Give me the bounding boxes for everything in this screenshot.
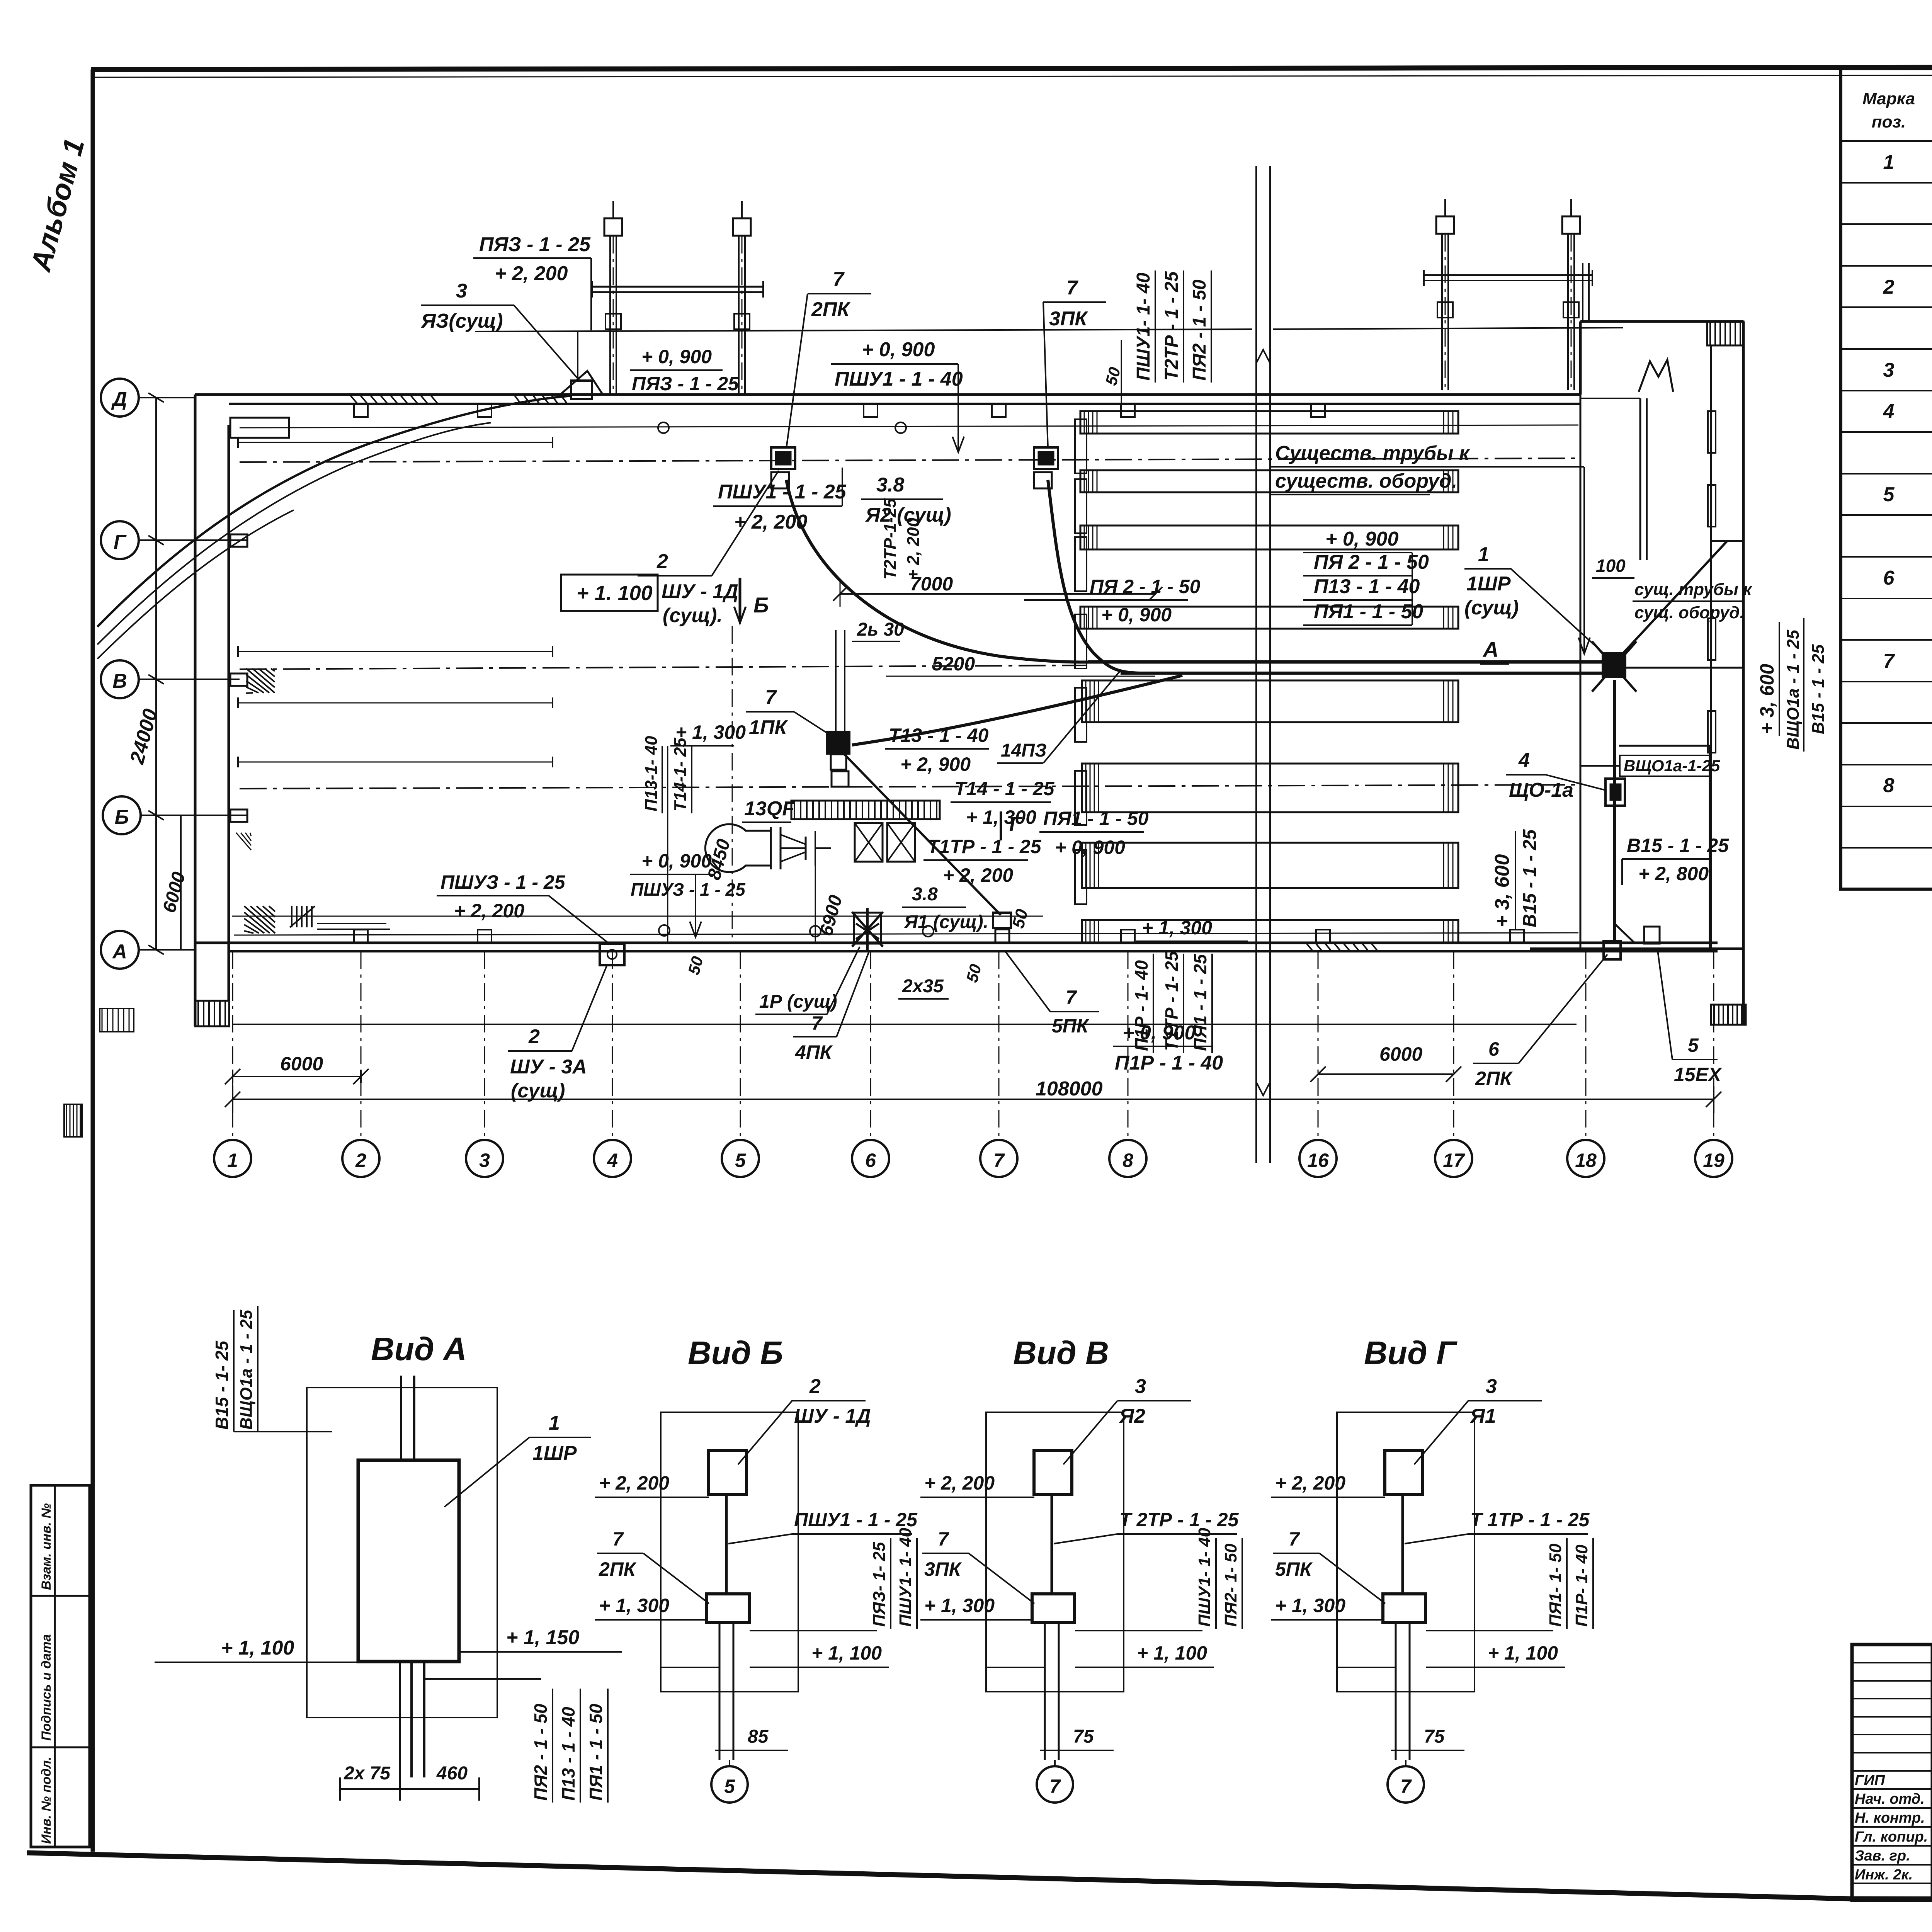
- portal leg footing: [1444, 199, 1446, 216]
- svg-text:7: 7: [833, 268, 845, 291]
- view Г outer rect: [1337, 1412, 1475, 1692]
- svg-text:5ПК: 5ПК: [1052, 1015, 1090, 1037]
- top wall hatched segment 1: [350, 395, 357, 404]
- fold mark left border: [64, 1104, 82, 1137]
- axis circle В: [101, 660, 139, 698]
- arrow down near ПШУЗ: [695, 874, 696, 935]
- svg-text:Существ. трубы к: Существ. трубы к: [1275, 442, 1470, 464]
- vertical dim line 8450: [732, 626, 733, 943]
- X-box 1: [855, 823, 883, 862]
- view A outer rect: [307, 1388, 497, 1718]
- storage racks lower group: [1082, 680, 1458, 722]
- portal hanger squares: [1437, 302, 1453, 318]
- svg-text:(сущ).: (сущ).: [663, 604, 723, 627]
- portal crossbar: [592, 286, 763, 288]
- svg-text:6000: 6000: [280, 1053, 323, 1075]
- building right wall: [1742, 321, 1745, 1024]
- annex bottom-right hatch block: [1711, 1005, 1746, 1025]
- view Б top box: [709, 1451, 747, 1495]
- bottom node below ЩО: [1604, 941, 1621, 959]
- view В bottom pipes: [1044, 1622, 1046, 1760]
- building top wall: [195, 393, 1580, 396]
- svg-text:(сущ): (сущ): [1464, 597, 1519, 619]
- svg-text:+ 1. 100: + 1. 100: [577, 582, 653, 605]
- svg-text:Вид Б: Вид Б: [688, 1335, 783, 1371]
- axis circle Б: [103, 796, 141, 834]
- section mark Г: [1000, 811, 1002, 840]
- svg-text:7000: 7000: [910, 573, 953, 595]
- left margin stamp box: [31, 1485, 90, 1847]
- lamp 13QF symbol: [705, 824, 771, 872]
- wall footing line top: [240, 425, 1578, 428]
- svg-text:ПЯ 2 - 1 - 50: ПЯ 2 - 1 - 50: [1090, 576, 1201, 597]
- crane rail dash-dot 3: [240, 785, 1578, 789]
- trolley drop 2x30: [835, 630, 837, 734]
- axis leader Д: [139, 397, 195, 398]
- svg-text:П13-1- 40: П13-1- 40: [642, 736, 661, 811]
- view Б lower box: [707, 1594, 749, 1622]
- svg-text:Г: Г: [1009, 813, 1022, 835]
- building bottom-left hatch block: [195, 1001, 229, 1026]
- annex bottom wall: [1530, 947, 1743, 950]
- annex door zigzag: [1639, 360, 1673, 392]
- svg-text:5: 5: [724, 1776, 735, 1797]
- view Г top box: [1385, 1451, 1423, 1495]
- elevation box +1.100: [561, 575, 658, 611]
- svg-text:ПШУ1- 1- 40: ПШУ1- 1- 40: [896, 1527, 915, 1627]
- svg-text:7: 7: [1066, 986, 1077, 1008]
- conduit curve from 2ПК: [786, 480, 1121, 662]
- svg-text:В: В: [112, 670, 127, 692]
- svg-text:Т1ТР - 1 - 25: Т1ТР - 1 - 25: [927, 836, 1042, 857]
- svg-text:П1Р - 1 - 40: П1Р - 1 - 40: [1115, 1052, 1223, 1074]
- svg-text:ВЩО1а-1-25: ВЩО1а-1-25: [1624, 757, 1720, 775]
- svg-text:поз.: поз.: [1872, 112, 1906, 131]
- svg-text:4: 4: [1518, 749, 1530, 772]
- svg-text:Н. контр.: Н. контр.: [1855, 1810, 1925, 1826]
- svg-text:4: 4: [1883, 400, 1895, 423]
- cross hatch block B: [246, 668, 275, 693]
- svg-text:16: 16: [1307, 1150, 1329, 1171]
- box ЩО-1а node: [1605, 779, 1625, 806]
- svg-text:6000: 6000: [1379, 1043, 1422, 1065]
- axis circle А: [101, 931, 139, 969]
- svg-text:ГИП: ГИП: [1855, 1772, 1885, 1789]
- 4ПК cluster at bottom wall: [854, 913, 881, 944]
- node diagonal to supply: [1613, 541, 1727, 664]
- svg-text:2ПК: 2ПК: [599, 1558, 637, 1580]
- svg-text:+ 2, 200: + 2, 200: [495, 262, 568, 285]
- interior light row lines: [238, 442, 553, 443]
- svg-text:1ШР: 1ШР: [1466, 573, 1511, 595]
- svg-text:+ 0, 900: + 0, 900: [1055, 837, 1125, 858]
- svg-text:Т13 - 1 - 40: Т13 - 1 - 40: [889, 724, 989, 746]
- svg-text:+ 3, 600: + 3, 600: [1491, 854, 1514, 927]
- storage racks upper group: [1080, 411, 1458, 434]
- svg-text:2ь 30: 2ь 30: [857, 619, 904, 640]
- svg-text:2: 2: [809, 1375, 821, 1398]
- svg-text:Инв. № подл.: Инв. № подл.: [39, 1757, 54, 1844]
- svg-text:ПЯ2 - 1 - 50: ПЯ2 - 1 - 50: [1189, 279, 1210, 381]
- svg-text:Я1 (сущ).: Я1 (сущ).: [903, 912, 988, 932]
- view Б column bubble: [711, 1766, 748, 1803]
- svg-text:14ПЗ: 14ПЗ: [1001, 740, 1047, 761]
- svg-text:ПЯЗ- 1- 25: ПЯЗ- 1- 25: [870, 1542, 889, 1627]
- stair symbol bottom-left: [291, 906, 293, 927]
- svg-text:Г: Г: [114, 531, 127, 553]
- conduit drop column 18: [1582, 263, 1583, 321]
- svg-text:ПЯ1 - 1 - 50: ПЯ1 - 1 - 50: [586, 1704, 606, 1801]
- view В outer rect: [986, 1412, 1124, 1692]
- annex inner partition walls: [1580, 395, 1582, 949]
- svg-text:Взам. инв. №: Взам. инв. №: [39, 1503, 54, 1590]
- view A cabinet 1ШР: [358, 1460, 459, 1662]
- axis leader Г: [139, 539, 247, 541]
- svg-text:ПЯЗ - 1 - 25: ПЯЗ - 1 - 25: [632, 373, 739, 395]
- portal legs: [609, 236, 611, 394]
- svg-text:13QF: 13QF: [744, 798, 795, 820]
- svg-text:5: 5: [1688, 1034, 1699, 1056]
- main conduit run to node: [1088, 660, 1603, 664]
- svg-text:Нач. отд.: Нач. отд.: [1855, 1791, 1925, 1807]
- svg-text:ПШУЗ - 1 - 25: ПШУЗ - 1 - 25: [631, 879, 746, 900]
- svg-text:А: А: [1482, 637, 1498, 662]
- svg-text:Т14 - 1 - 25: Т14 - 1 - 25: [954, 778, 1055, 799]
- svg-text:П13 - 1 - 40: П13 - 1 - 40: [558, 1707, 578, 1801]
- hatched busbar: [791, 801, 940, 819]
- svg-text:7: 7: [1883, 650, 1895, 672]
- svg-text:+ 2, 200: + 2, 200: [1275, 1472, 1345, 1494]
- svg-text:2х35: 2х35: [902, 976, 944, 997]
- view A bottom pipes: [399, 1662, 401, 1777]
- svg-text:108000: 108000: [1036, 1078, 1103, 1100]
- svg-text:+ 3, 600: + 3, 600: [1756, 664, 1778, 734]
- svg-text:ПШУ1 - 1 - 25: ПШУ1 - 1 - 25: [794, 1509, 918, 1531]
- svg-text:8: 8: [1883, 774, 1895, 797]
- svg-text:ШУ - 1Д: ШУ - 1Д: [794, 1405, 871, 1427]
- svg-text:2ПК: 2ПК: [1475, 1068, 1513, 1089]
- svg-text:Т14-1- 25: Т14-1- 25: [671, 738, 690, 811]
- svg-text:2ПК: 2ПК: [811, 298, 850, 321]
- view Г lower box: [1383, 1594, 1425, 1622]
- portal legs: [1441, 234, 1443, 390]
- junction box node 1ШР: [1603, 653, 1625, 677]
- svg-text:3.8: 3.8: [876, 474, 904, 496]
- svg-text:+ 0, 900: + 0, 900: [641, 850, 712, 872]
- curve rail spur second: [97, 423, 491, 645]
- svg-text:Вид В: Вид В: [1013, 1335, 1109, 1371]
- right annex step wall: [1579, 321, 1582, 395]
- view Г riser: [1401, 1495, 1404, 1595]
- svg-text:ШУ - 1Д: ШУ - 1Д: [662, 580, 738, 603]
- svg-text:Т1ТР - 1- 25: Т1ТР - 1- 25: [1162, 951, 1182, 1051]
- svg-text:+ 0, 900: + 0, 900: [1101, 604, 1172, 626]
- view Б bottom pipes: [719, 1622, 721, 1760]
- building left wall: [194, 395, 197, 1026]
- svg-text:+ 2, 200: + 2, 200: [599, 1472, 669, 1494]
- svg-text:7: 7: [811, 1012, 823, 1034]
- node to right wall: [1625, 667, 1743, 669]
- svg-text:7: 7: [938, 1528, 949, 1550]
- svg-text:2: 2: [528, 1026, 540, 1048]
- svg-text:2: 2: [656, 550, 668, 573]
- svg-text:1: 1: [1883, 151, 1895, 173]
- svg-text:+ 1, 300: + 1, 300: [599, 1595, 669, 1616]
- foundation line: [232, 1024, 1577, 1025]
- svg-text:1: 1: [549, 1412, 560, 1434]
- portal crossbar: [1424, 274, 1592, 276]
- svg-text:+ 1, 150: + 1, 150: [506, 1626, 579, 1649]
- svg-text:7: 7: [1289, 1528, 1300, 1550]
- svg-text:Марка: Марка: [1862, 89, 1915, 108]
- svg-text:+ 1, 100: + 1, 100: [221, 1637, 294, 1659]
- axis leader Б: [141, 815, 247, 816]
- curve from border to building (rail spur upper): [97, 396, 572, 627]
- svg-text:19: 19: [1703, 1150, 1725, 1171]
- svg-text:+ 1, 100: + 1, 100: [1137, 1642, 1207, 1664]
- svg-text:+ 0, 900: + 0, 900: [1325, 528, 1398, 550]
- column bubbles: [214, 1140, 251, 1177]
- specification table: [1841, 69, 1932, 889]
- title block signature columns: [1931, 1645, 1932, 1900]
- node conduit vertical: [1613, 680, 1616, 943]
- svg-text:сущ. трубы к: сущ. трубы к: [1634, 580, 1753, 599]
- crane rail dash-dot 2: [240, 665, 1086, 669]
- svg-text:3ПК: 3ПК: [924, 1558, 962, 1580]
- svg-text:7: 7: [765, 686, 777, 709]
- svg-text:П1Р - 1- 40: П1Р - 1- 40: [1131, 960, 1151, 1051]
- curve rail spur lower: [97, 510, 294, 659]
- svg-text:+ 2, 800: + 2, 800: [1638, 863, 1709, 884]
- cross hatch block Б small: [236, 833, 251, 850]
- svg-text:ПШУЗ - 1 - 25: ПШУЗ - 1 - 25: [440, 871, 566, 893]
- svg-text:(сущ): (сущ): [511, 1080, 565, 1102]
- axis circle Г: [101, 521, 139, 559]
- svg-text:75: 75: [1073, 1726, 1094, 1747]
- view В riser: [1051, 1495, 1053, 1595]
- axis leader А: [139, 949, 195, 951]
- view В top box: [1034, 1451, 1072, 1495]
- column ticks bottom wall: [354, 930, 368, 943]
- svg-text:1ШР: 1ШР: [532, 1442, 577, 1464]
- svg-text:+ 2, 200: + 2, 200: [924, 1472, 995, 1494]
- 3ПК pull box cluster: [1034, 447, 1058, 469]
- bottom wall hatched segment: [1306, 943, 1313, 951]
- svg-text:Вид А: Вид А: [371, 1331, 467, 1367]
- svg-text:+ 1, 300: + 1, 300: [1142, 917, 1212, 939]
- svg-text:85: 85: [748, 1726, 769, 1747]
- svg-text:1Р (сущ): 1Р (сущ): [759, 992, 837, 1012]
- office room top-left: [230, 418, 289, 438]
- svg-text:Инж. 2к.: Инж. 2к.: [1855, 1867, 1913, 1883]
- svg-text:7: 7: [1400, 1776, 1412, 1797]
- svg-text:ШУ - 3А: ШУ - 3А: [510, 1056, 587, 1078]
- svg-text:3ПК: 3ПК: [1049, 308, 1088, 330]
- svg-text:Гл. копир.: Гл. копир.: [1855, 1829, 1928, 1845]
- conduit curve from 3ПК: [1048, 480, 1140, 673]
- svg-text:1: 1: [227, 1150, 238, 1171]
- wall mount circles: [658, 422, 669, 433]
- portal leg footing: [612, 201, 614, 218]
- svg-text:ПШУ1 - 1 - 25: ПШУ1 - 1 - 25: [718, 481, 847, 503]
- svg-text:+ 2, 200: + 2, 200: [943, 864, 1013, 886]
- svg-text:15ЕХ: 15ЕХ: [1674, 1064, 1722, 1085]
- section mark Б: [739, 578, 742, 622]
- svg-text:6: 6: [865, 1150, 876, 1171]
- wall footing line bottom: [234, 933, 1578, 935]
- svg-text:Я1: Я1: [1469, 1405, 1496, 1427]
- title block outer: [1852, 1645, 1932, 1900]
- sheet border frame: [91, 70, 95, 1852]
- svg-text:1ПК: 1ПК: [749, 716, 788, 739]
- svg-text:+ 0, 900: + 0, 900: [862, 338, 935, 361]
- svg-text:3: 3: [479, 1150, 490, 1171]
- svg-text:5ПК: 5ПК: [1275, 1558, 1313, 1580]
- left dimension line 6000: [180, 815, 182, 950]
- svg-text:ПЯЗ - 1 - 25: ПЯЗ - 1 - 25: [479, 233, 591, 256]
- svg-text:Зав. гр.: Зав. гр.: [1855, 1848, 1910, 1864]
- svg-text:75: 75: [1424, 1726, 1445, 1747]
- svg-text:+ 2, 200: + 2, 200: [454, 900, 524, 922]
- svg-text:+ 0, 900: + 0, 900: [641, 346, 712, 367]
- view A bottom dims: [340, 1788, 479, 1790]
- svg-text:3.8: 3.8: [912, 884, 938, 905]
- svg-text:2: 2: [355, 1150, 366, 1171]
- 1ПК pull box cluster: [827, 732, 849, 753]
- node small box right: [1644, 927, 1660, 944]
- ramp hatch left: [100, 1009, 134, 1032]
- vertical dim 6900: [815, 866, 816, 943]
- dim line 108000: [233, 1099, 1714, 1100]
- svg-text:существ. оборуд.: существ. оборуд.: [1275, 470, 1457, 492]
- svg-text:В15 - 1- 25: В15 - 1- 25: [212, 1340, 232, 1430]
- svg-text:100: 100: [1596, 556, 1626, 576]
- dim line 6000 right: [1318, 1073, 1454, 1075]
- view Б outer rect: [661, 1412, 798, 1692]
- title block signature rows: [1852, 1662, 1932, 1663]
- svg-text:Т2ТР - 1 - 25: Т2ТР - 1 - 25: [1162, 271, 1182, 381]
- view A top pipes: [400, 1376, 402, 1460]
- view Г column bubble: [1388, 1766, 1424, 1803]
- svg-text:П1Р- 1- 40: П1Р- 1- 40: [1572, 1544, 1591, 1627]
- svg-text:ПШУ1 - 1 - 40: ПШУ1 - 1 - 40: [835, 368, 963, 390]
- rack aisle line: [232, 916, 1043, 917]
- svg-text:Т 1ТР - 1 - 25: Т 1ТР - 1 - 25: [1470, 1509, 1590, 1531]
- svg-text:ВЩО1а - 1 - 25: ВЩО1а - 1 - 25: [1784, 629, 1803, 750]
- svg-text:Т 2ТР - 1 - 25: Т 2ТР - 1 - 25: [1119, 1509, 1239, 1531]
- svg-text:ВЩО1а - 1 - 25: ВЩО1а - 1 - 25: [237, 1310, 256, 1430]
- box ЯЗ on top wall: [571, 381, 592, 399]
- overhead conduit line: [475, 329, 1252, 332]
- svg-text:В15 - 1 - 25: В15 - 1 - 25: [1520, 829, 1540, 927]
- svg-text:5: 5: [735, 1150, 746, 1171]
- svg-text:5200: 5200: [932, 653, 975, 675]
- svg-text:Я2: Я2: [1119, 1405, 1145, 1427]
- top wall door notch: [560, 371, 603, 395]
- svg-text:17: 17: [1443, 1150, 1465, 1171]
- svg-text:Подпись и дата: Подпись и дата: [39, 1634, 54, 1741]
- view Г bottom pipes: [1395, 1622, 1397, 1760]
- svg-text:+ 2, 900: + 2, 900: [900, 753, 971, 775]
- svg-text:Т2ТР-1-25: Т2ТР-1-25: [881, 498, 900, 580]
- view Б riser: [725, 1495, 728, 1595]
- svg-text:В15 - 1 - 25: В15 - 1 - 25: [1627, 835, 1729, 856]
- svg-text:ПЯ2- 1- 50: ПЯ2- 1- 50: [1221, 1543, 1240, 1627]
- svg-text:ПЯ1- 1- 50: ПЯ1- 1- 50: [1546, 1543, 1565, 1627]
- svg-text:ПШУ1- 1- 40: ПШУ1- 1- 40: [1195, 1527, 1214, 1627]
- svg-text:сущ. оборуд.: сущ. оборуд.: [1634, 603, 1745, 622]
- svg-text:2х 75: 2х 75: [344, 1763, 391, 1784]
- svg-text:18: 18: [1575, 1150, 1597, 1171]
- svg-text:460: 460: [436, 1763, 468, 1784]
- svg-text:6: 6: [1883, 567, 1895, 589]
- rack end posts hatched: [1075, 419, 1087, 473]
- conduit curve from 1ПК: [852, 675, 1182, 745]
- conduit diagonal 1ПК to bottom wall: [844, 754, 1001, 915]
- svg-text:7: 7: [612, 1528, 624, 1550]
- svg-text:+ 1, 300: + 1, 300: [924, 1595, 995, 1616]
- annex top-right hatch block: [1707, 321, 1743, 345]
- dim line 6000 left: [233, 1076, 361, 1077]
- crane rail dash-dot 1: [240, 458, 1578, 462]
- top wall hatched segment 2: [514, 395, 521, 404]
- svg-text:1: 1: [1478, 543, 1489, 566]
- view В column bubble: [1037, 1766, 1073, 1803]
- svg-text:ПЯ1 - 1 - 50: ПЯ1 - 1 - 50: [1314, 600, 1423, 623]
- svg-text:3: 3: [1486, 1375, 1497, 1398]
- svg-text:ПШУ1- 1- 40: ПШУ1- 1- 40: [1133, 272, 1154, 381]
- svg-text:7: 7: [993, 1150, 1005, 1171]
- svg-text:Вид Г: Вид Г: [1364, 1335, 1458, 1371]
- view В lower box: [1032, 1594, 1075, 1622]
- building bottom wall axis А: [195, 942, 1718, 944]
- svg-text:2: 2: [1883, 276, 1895, 298]
- svg-text:+ 2, 200: + 2, 200: [904, 517, 923, 580]
- svg-text:5: 5: [1883, 483, 1895, 506]
- label ВЩО1а-1-25 box: [1620, 755, 1709, 776]
- svg-text:Д: Д: [111, 388, 127, 410]
- conduit drop to ЯЗ box: [577, 332, 578, 381]
- cross hatch block А: [244, 906, 275, 933]
- svg-text:3: 3: [456, 280, 467, 302]
- column grid lines to bubbles: [232, 951, 233, 1140]
- svg-text:В15 - 1 - 25: В15 - 1 - 25: [1809, 644, 1828, 734]
- svg-text:3: 3: [1883, 359, 1895, 381]
- portal hanger squares: [605, 314, 621, 329]
- svg-text:П13 - 1 - 40: П13 - 1 - 40: [1314, 575, 1420, 598]
- svg-text:А: А: [112, 940, 127, 963]
- lamp handle: [805, 837, 807, 860]
- svg-text:+ 1, 100: + 1, 100: [811, 1642, 882, 1664]
- ШУ-3А box on bottom wall: [600, 944, 624, 965]
- svg-text:4: 4: [607, 1150, 618, 1171]
- building break line vertical: [1255, 166, 1257, 1163]
- axis leader В: [139, 679, 240, 680]
- svg-text:ЩО-1а: ЩО-1а: [1509, 779, 1573, 801]
- svg-text:ПЯ1 - 1 - 25: ПЯ1 - 1 - 25: [1190, 954, 1210, 1051]
- left dimension line 24000: [155, 398, 157, 950]
- 5ПК box on bottom wall: [993, 913, 1011, 928]
- svg-text:+ 1, 100: + 1, 100: [1488, 1642, 1558, 1664]
- svg-text:3: 3: [1135, 1375, 1146, 1398]
- annex partition y1930: [1619, 745, 1711, 747]
- svg-text:ПЯ1 - 1 - 50: ПЯ1 - 1 - 50: [1043, 808, 1149, 829]
- 2ПК pull box cluster: [771, 447, 795, 469]
- column ticks top wall: [354, 404, 368, 417]
- svg-text:7: 7: [1066, 277, 1078, 299]
- X-box 2: [887, 823, 915, 862]
- svg-text:6: 6: [1488, 1038, 1500, 1060]
